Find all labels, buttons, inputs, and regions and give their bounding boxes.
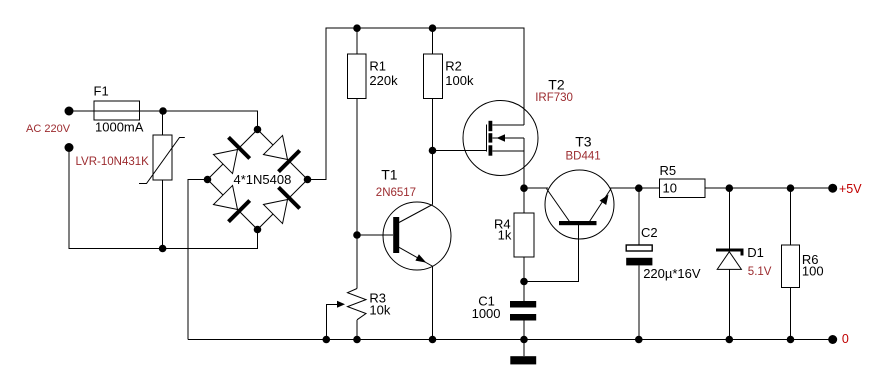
svg-text:T3: T3 (575, 133, 592, 149)
node D1 bottom rail (726, 336, 734, 344)
transistor T1 circle (383, 202, 451, 270)
wire gate node down to T1 collector (432, 151, 434, 205)
wire AC neutral from terminal down and right to bridge bottom (69, 148, 258, 249)
wire T1 base lead (357, 234, 393, 236)
wire source node to T3 collector (524, 187, 548, 189)
svg-text:1000mA: 1000mA (95, 120, 144, 135)
node R6 top (787, 184, 795, 192)
svg-text:R1: R1 (369, 59, 386, 74)
wire R1 top lead (356, 28, 358, 54)
svg-text:220k: 220k (369, 73, 398, 88)
svg-text:0: 0 (842, 332, 849, 346)
diode D-c (left node to bottom node) (213, 185, 249, 221)
wire R3 bottom lead (356, 320, 358, 340)
wire C1 bottom lead (523, 321, 525, 340)
transistor T1 emitter arrow (415, 254, 426, 262)
transistor T1 base bar (393, 217, 399, 253)
capacitor C2 plates (626, 245, 652, 265)
node bridge right (304, 176, 312, 184)
mosfet T2 gate line (485, 125, 487, 152)
zener diode D1 (716, 250, 742, 269)
wire AC live from terminal through F1 to bridge top (69, 111, 258, 130)
node C2 bottom rail (635, 336, 643, 344)
rheostat R3 wiper arrow (337, 301, 345, 308)
node R3 wiper rail (323, 336, 331, 344)
transistor T3 circle (545, 170, 614, 239)
svg-text:100k: 100k (445, 73, 474, 88)
resistor R6 (781, 245, 799, 288)
wire R2 top lead (432, 28, 434, 54)
svg-text:+5V: +5V (839, 182, 862, 196)
terminal AC neutral (65, 143, 74, 152)
terminal AC live (65, 107, 74, 116)
wire bridge plus up to top rail (308, 28, 525, 179)
transistor T3 base bar (559, 221, 597, 225)
mosfet T2 body line (492, 137, 524, 139)
wire R4 top lead (523, 188, 525, 213)
svg-text:F1: F1 (94, 84, 109, 99)
transistor T1 emitter line (399, 247, 433, 266)
wire C2 bottom lead (638, 266, 640, 340)
node T2 source (520, 184, 528, 192)
wire D1 top lead (728, 188, 730, 248)
transistor T3 collector line (547, 189, 570, 222)
svg-text:1000: 1000 (472, 306, 501, 321)
wire T2 source down to node (523, 138, 525, 188)
mosfet T2 circle (463, 101, 538, 176)
terminal +5V (828, 184, 837, 193)
wire T1 emitter to bottom rail (432, 267, 434, 340)
node bridge bottom (254, 226, 262, 234)
bridge rectifier 4*1N5408 frame (208, 130, 308, 230)
wire C2 top lead (638, 188, 640, 245)
wire bridge minus to bottom rail (188, 180, 208, 340)
node T3 emitter rail (635, 184, 643, 192)
svg-text:IRF730: IRF730 (535, 92, 573, 104)
node F1-varistor (159, 107, 167, 115)
svg-text:R2: R2 (445, 59, 462, 74)
wire D1 bottom lead (728, 269, 730, 339)
node R2 top (429, 24, 437, 32)
svg-text:C2: C2 (641, 225, 658, 240)
capacitor C1 plates (510, 301, 536, 321)
svg-text:BD441: BD441 (566, 151, 601, 163)
svg-text:4*1N5408: 4*1N5408 (234, 172, 292, 187)
node T1 base (353, 231, 361, 239)
node R4 bottom (520, 278, 528, 286)
node R3 bottom rail (353, 336, 361, 344)
svg-text:10: 10 (663, 181, 677, 196)
wire T1 base node down to R3 (356, 235, 358, 289)
svg-text:100: 100 (802, 264, 824, 279)
transistor T3 emitter arrow (600, 195, 609, 206)
node T1 emitter rail (429, 336, 437, 344)
wire R3 wiper to bottom rail (326, 304, 338, 339)
node T2 gate (429, 147, 437, 155)
resistor R4 (514, 213, 534, 257)
mosfet T2 drain line (492, 124, 524, 126)
node bridge left (204, 176, 212, 184)
node C1 bottom rail (520, 336, 528, 344)
svg-text:D1: D1 (747, 245, 764, 260)
wire R6 bottom lead (790, 288, 792, 340)
rheostat R3 zigzag (348, 289, 367, 320)
node R1 top (353, 24, 361, 32)
wire bottom rail 0V (188, 339, 833, 341)
wire T3 base to R4 bottom node (524, 225, 579, 282)
wire R1 bottom lead to T1 base node (356, 99, 358, 236)
svg-text:R5: R5 (660, 163, 677, 178)
ground bar (510, 356, 536, 364)
wire C1 top lead (523, 282, 525, 302)
mosfet T2 source line (492, 150, 524, 152)
node R6 bottom rail (787, 336, 795, 344)
wire varistor top lead (162, 111, 164, 135)
transistor T1 collector line (399, 205, 433, 223)
wire R4 bottom lead (523, 257, 525, 282)
svg-text:LVR-10N431K: LVR-10N431K (76, 156, 150, 168)
fuse F1 (94, 101, 140, 120)
mosfet T2 channel bars (489, 121, 493, 156)
diode D-d (bottom node to right node) (263, 187, 299, 223)
node varistor bottom (159, 245, 167, 253)
transistor T3 emitter line (590, 189, 612, 222)
terminal 0V (828, 335, 837, 344)
svg-text:T1: T1 (381, 166, 398, 182)
resistor R2 (423, 54, 442, 99)
node D1 top (726, 184, 734, 192)
labels red (26, 92, 772, 278)
svg-text:1k: 1k (498, 228, 512, 243)
wire ground stub (523, 340, 525, 357)
wire T3 emitter to R5 (610, 187, 660, 189)
labels black (94, 59, 824, 321)
mosfet T2 body arrow (497, 134, 506, 141)
wire T2 gate lead (433, 150, 487, 152)
svg-text:10k: 10k (369, 303, 390, 318)
resistor R5 (660, 179, 706, 198)
svg-text:T2: T2 (548, 77, 565, 93)
svg-text:5.1V: 5.1V (748, 266, 772, 278)
diode D-a (left node to top node) (213, 137, 249, 173)
node bridge top (254, 126, 262, 134)
varistor LVR-10N431K (139, 135, 185, 184)
wire R5 right to +5V terminal (705, 187, 833, 189)
svg-text:220µ*16V: 220µ*16V (643, 266, 701, 281)
wire R2 bottom lead to gate node (432, 99, 434, 151)
diode D-b (top node to right node) (263, 135, 299, 171)
wire varistor bottom lead (162, 180, 164, 249)
svg-text:AC 220V: AC 220V (26, 123, 71, 135)
svg-text:2N6517: 2N6517 (376, 187, 416, 199)
wire R6 top lead (790, 188, 792, 245)
resistor R1 (347, 54, 366, 99)
